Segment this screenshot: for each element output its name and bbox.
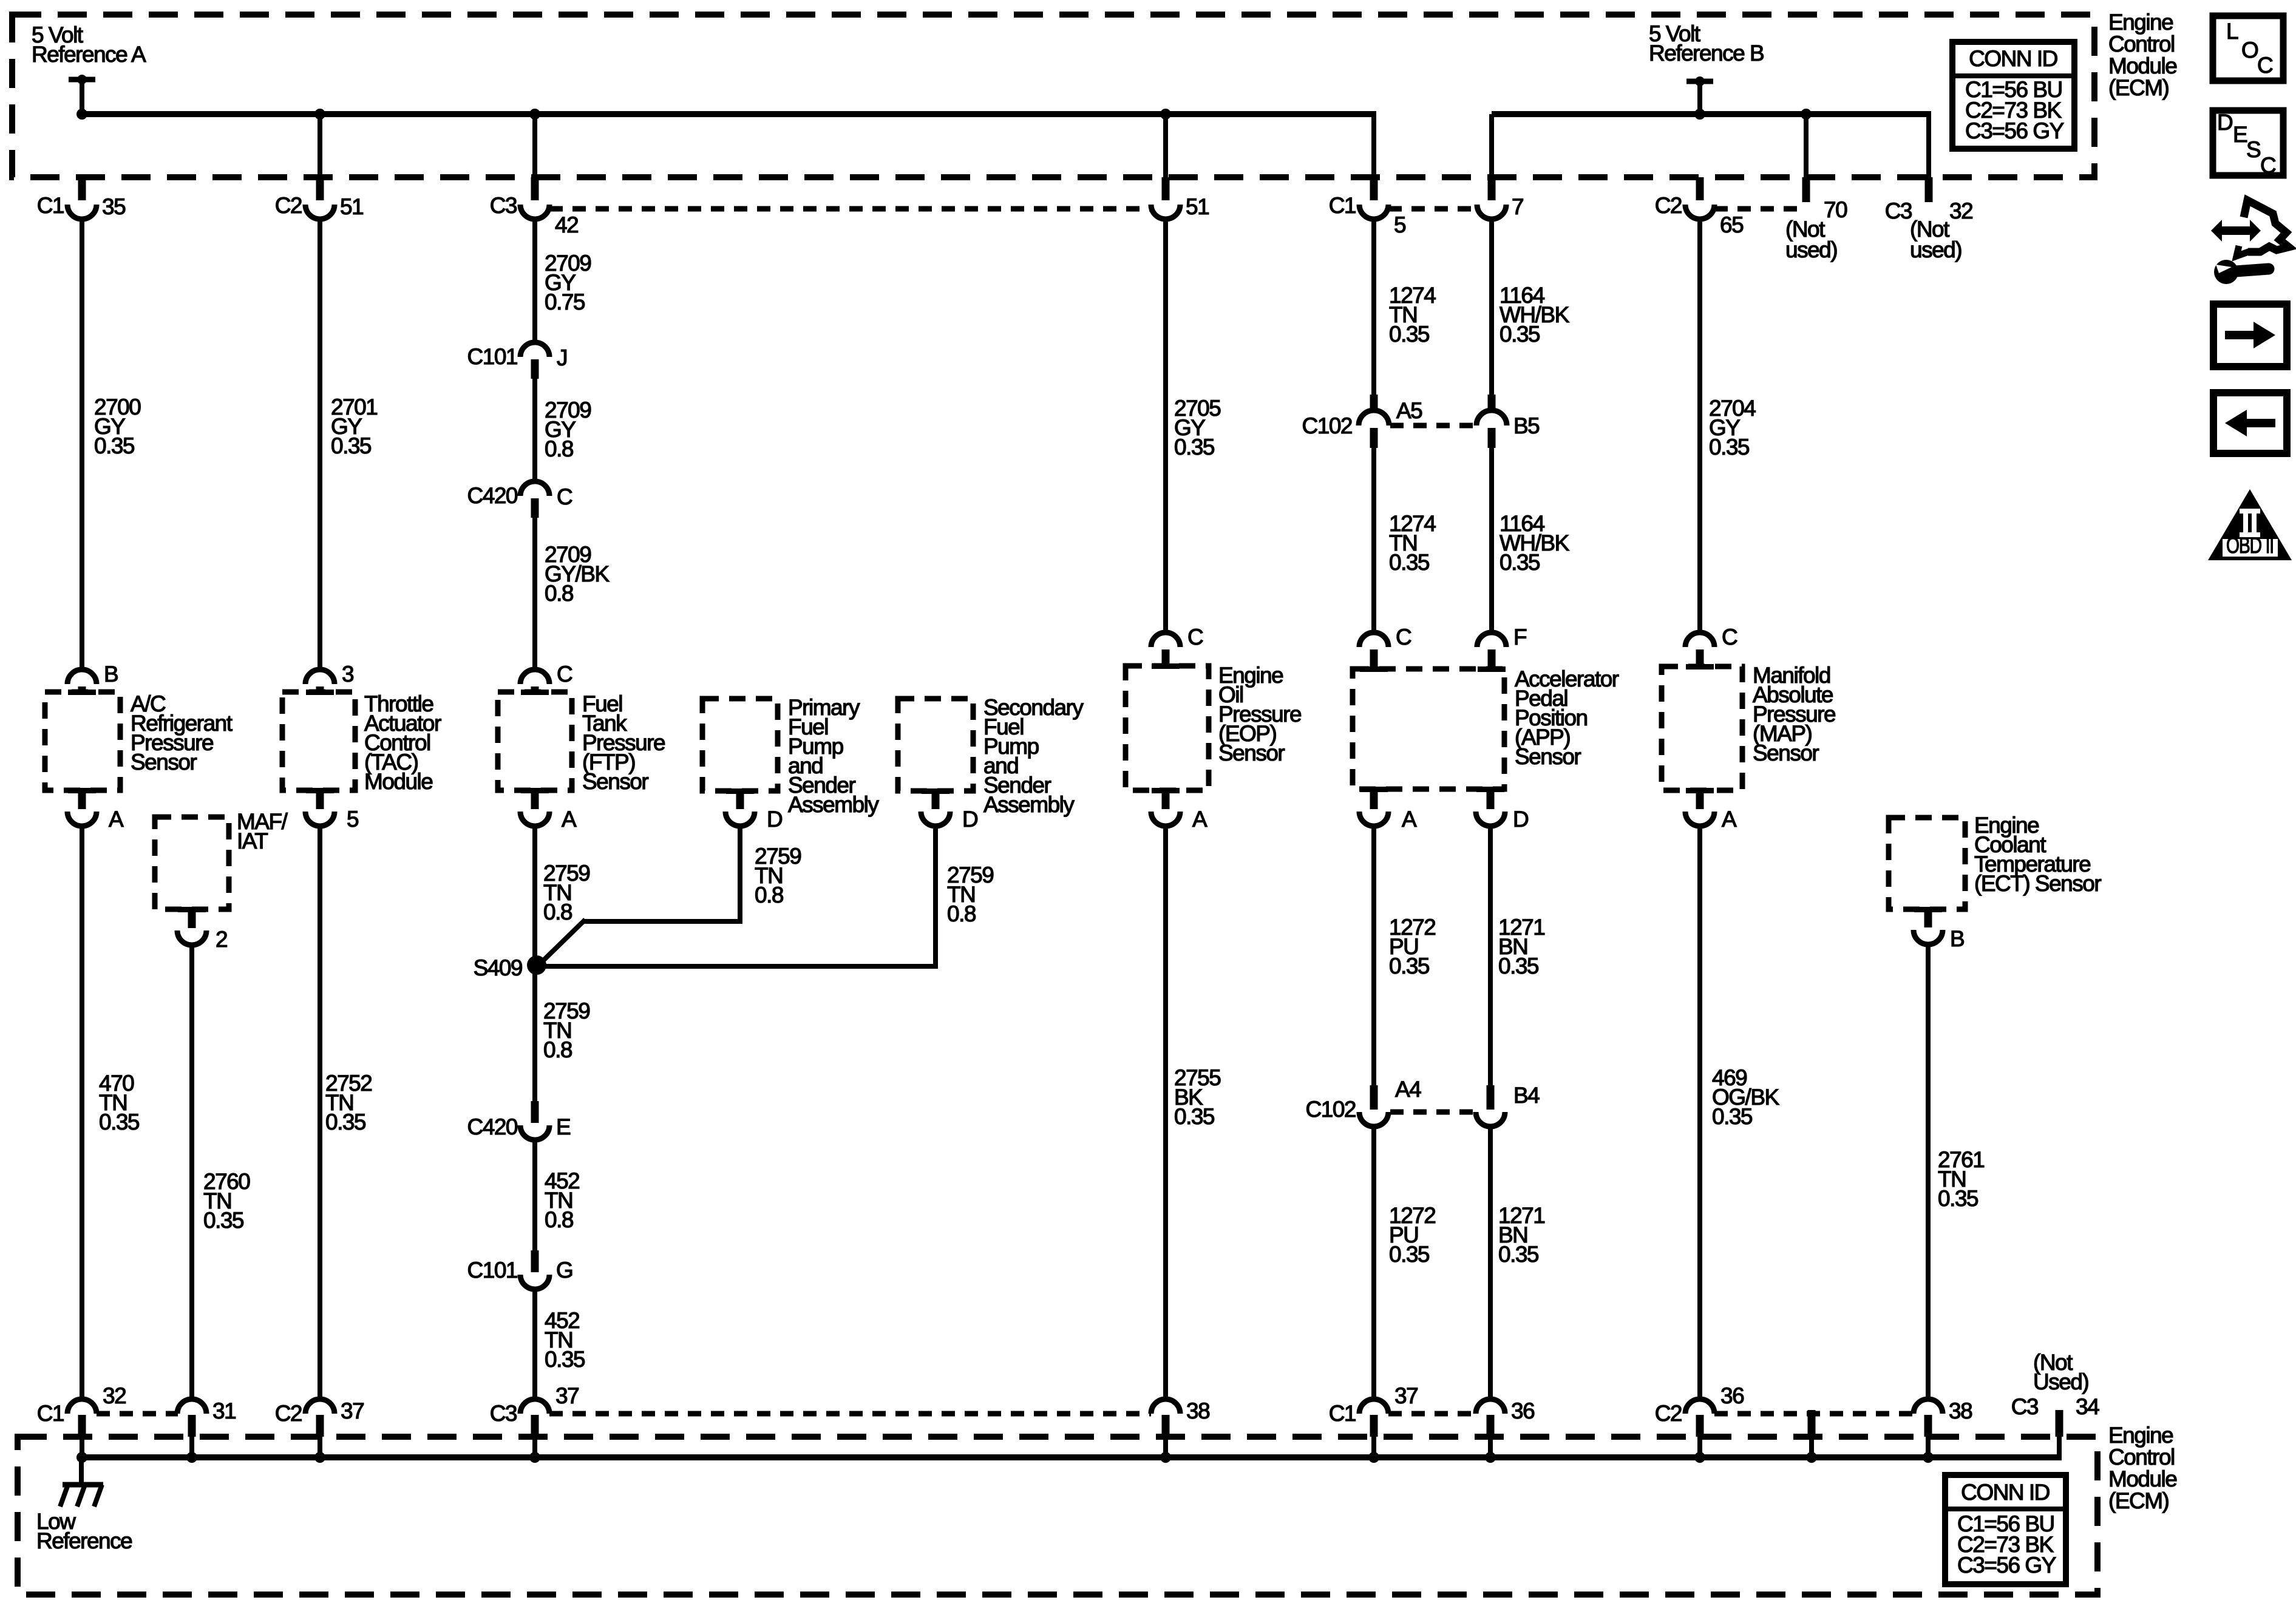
sensor MAF/IAT — [155, 809, 288, 909]
svg-text:C3: C3 — [2011, 1394, 2038, 1419]
connector C101 pin J — [467, 342, 567, 379]
svg-text:C: C — [1722, 625, 1737, 649]
svg-text:C420: C420 — [467, 1114, 518, 1139]
module Throttle Actuator Control (TAC) — [282, 691, 441, 794]
CONN ID table bottom — [1945, 1475, 2066, 1584]
wire 2759 TN 0.8 from primary pump — [537, 826, 801, 967]
svg-text:0.8: 0.8 — [543, 1037, 572, 1062]
wire 2759 TN 0.8 from secondary pump — [537, 826, 993, 966]
svg-text:Sensor: Sensor — [582, 769, 648, 794]
svg-text:C1: C1 — [1329, 1401, 1356, 1426]
pin 70 not used — [1785, 177, 1847, 262]
svg-text:(ECT) Sensor: (ECT) Sensor — [1974, 871, 2101, 896]
wire drop C3-42 — [532, 114, 537, 180]
svg-text:C102: C102 — [1302, 413, 1352, 438]
connector C420 pin C — [467, 481, 572, 518]
svg-text:C1: C1 — [1329, 193, 1356, 218]
svg-text:0.8: 0.8 — [543, 900, 572, 924]
ECM top module box (dashed) — [12, 15, 2094, 177]
connector C1 pin 37 bottom — [1329, 1383, 1418, 1463]
svg-text:used): used) — [1785, 237, 1837, 262]
svg-text:Module: Module — [2108, 1466, 2176, 1491]
connector C102 pin A4 — [1306, 1077, 1422, 1127]
connector C2 pin 36 bottom — [1655, 1383, 1744, 1463]
wire 1164 WH/BK 0.35 upper — [1492, 221, 1570, 397]
icon LOC — [2213, 16, 2283, 81]
svg-text:C2: C2 — [1655, 193, 1682, 218]
svg-text:B: B — [1950, 926, 1964, 951]
connector C102 pin A5 — [1302, 395, 1423, 448]
connector C101 pin G — [467, 1250, 573, 1289]
svg-text:37: 37 — [1394, 1383, 1418, 1408]
svg-text:C: C — [557, 484, 572, 509]
svg-text:0.35: 0.35 — [99, 1110, 140, 1134]
svg-text:CONN ID: CONN ID — [1961, 1480, 2050, 1505]
wire 1274 TN 0.35 lower — [1374, 448, 1436, 632]
svg-text:3: 3 — [342, 662, 353, 686]
svg-text:A: A — [109, 807, 124, 832]
dashed wire C1-37 to 36 — [1388, 1411, 1476, 1417]
svg-text:0.35: 0.35 — [1174, 1104, 1215, 1129]
svg-text:O: O — [2241, 38, 2258, 63]
wire 2760 TN 0.35 — [192, 945, 250, 1399]
svg-text:S409: S409 — [474, 955, 522, 980]
wire 2752 TN 0.35 — [320, 826, 372, 1399]
connector C2 pin 65 — [1655, 177, 1744, 237]
svg-text:Assembly: Assembly — [983, 792, 1075, 817]
svg-text:34: 34 — [2076, 1394, 2099, 1419]
connector C2 pin 51 — [275, 177, 363, 219]
sensor Engine Oil Pressure (EOP) — [1126, 663, 1301, 790]
svg-text:0.35: 0.35 — [1498, 954, 1539, 978]
svg-text:37: 37 — [341, 1398, 364, 1423]
wire 2705 GY 0.35 — [1166, 221, 1221, 632]
wire 2761 TN 0.35 — [1928, 944, 1984, 1399]
pin C3 34 not used — [2011, 1350, 2099, 1460]
dashed wire C3-37 to 38 — [549, 1411, 1151, 1417]
svg-text:C101: C101 — [467, 1258, 517, 1283]
sensor Manifold Absolute Pressure (MAP) — [1662, 663, 1835, 790]
svg-text:Control: Control — [2108, 1445, 2175, 1470]
icon arrow right — [2213, 304, 2287, 367]
connector C420 pin E — [467, 1101, 571, 1140]
sensor APP: connector pin F — [1477, 625, 1527, 672]
dashed wire C102 A5 to B5 — [1390, 423, 1476, 429]
sensor EOP: connector pin C — [1151, 625, 1203, 669]
wire 1274 TN 0.35 upper — [1374, 221, 1436, 397]
dashed wire C1-32 to 31 — [97, 1411, 178, 1417]
svg-text:5: 5 — [1394, 212, 1406, 237]
svg-text:C3: C3 — [490, 1401, 517, 1426]
wire drop 51 — [1163, 114, 1168, 180]
svg-text:38: 38 — [1186, 1398, 1209, 1423]
svg-text:E: E — [556, 1114, 571, 1139]
svg-text:C: C — [557, 662, 572, 686]
svg-text:Used): Used) — [2033, 1369, 2088, 1394]
svg-text:D: D — [1513, 807, 1528, 832]
connector pin D of primary pump — [725, 788, 782, 832]
svg-text:0.8: 0.8 — [545, 581, 573, 606]
wire bottom bus low reference — [81, 1454, 2059, 1460]
connector C1 pin 35 — [37, 177, 126, 219]
svg-text:Reference B: Reference B — [1649, 41, 1764, 66]
sensor FTP: connector pin C — [520, 662, 572, 695]
connector pin 38 bottom EOP — [1151, 1398, 1209, 1463]
svg-text:A4: A4 — [1395, 1077, 1421, 1102]
svg-text:0.8: 0.8 — [947, 901, 976, 926]
svg-text:35: 35 — [102, 194, 126, 219]
wire 1272 PU 0.35 upper — [1374, 826, 1435, 1085]
wire 2700 GY 0.35 — [82, 221, 141, 670]
svg-text:C: C — [2257, 53, 2273, 78]
wire 452 TN 0.8 — [535, 1140, 579, 1250]
svg-text:0.35: 0.35 — [1938, 1186, 1978, 1211]
svg-text:Module: Module — [364, 769, 432, 794]
CONN ID table top — [1952, 42, 2074, 149]
dashed wire C102 A4 to B4 — [1390, 1110, 1474, 1115]
svg-text:36: 36 — [1511, 1398, 1534, 1423]
connector C102 pin B4 — [1476, 1083, 1540, 1127]
wire 2709 GY/BK 0.8 — [535, 518, 610, 670]
svg-text:(ECM): (ECM) — [2108, 1488, 2169, 1513]
svg-text:B4: B4 — [1513, 1083, 1540, 1108]
svg-text:OBD II: OBD II — [2226, 533, 2274, 558]
sensor Accelerator Pedal Position (APP) — [1353, 666, 1619, 789]
svg-text:C3=56 GY: C3=56 GY — [1965, 118, 2064, 143]
dashed wire C2-36 to 38 ECT — [1714, 1411, 1914, 1417]
svg-text:0.35: 0.35 — [1389, 550, 1430, 575]
connector C1 pin 32 bottom — [37, 1383, 126, 1463]
connector pin 38 bottom ECT — [1914, 1398, 1972, 1463]
svg-text:Control: Control — [2108, 32, 2175, 56]
svg-text:A: A — [1722, 807, 1737, 832]
svg-text:A: A — [1192, 807, 1207, 832]
svg-text:L: L — [2226, 19, 2238, 44]
node 5 Volt Reference A — [32, 22, 146, 114]
assembly Secondary Fuel Pump and Sender — [898, 695, 1084, 817]
icon DESC — [2213, 110, 2283, 178]
ECM bottom module box (dashed) — [18, 1437, 2097, 1595]
sensor Engine Coolant Temperature (ECT) — [1889, 813, 2101, 909]
svg-text:Reference: Reference — [36, 1528, 132, 1553]
svg-text:32: 32 — [1949, 198, 1972, 223]
junction dots bus A — [76, 109, 1171, 120]
pin C3 32 not used — [1885, 177, 1972, 262]
svg-text:31: 31 — [212, 1398, 236, 1423]
connector C3 pin 37 bottom — [490, 1383, 579, 1463]
dashed wire C1-5 to 7 — [1388, 206, 1477, 212]
svg-text:(ECM): (ECM) — [2108, 75, 2169, 100]
connector pin A of A/C sensor — [67, 788, 124, 832]
ground low reference — [36, 1453, 132, 1553]
svg-text:C2: C2 — [275, 193, 302, 218]
wire 452 TN 0.35 — [535, 1289, 585, 1399]
connector pin 36 bottom — [1476, 1398, 1534, 1463]
svg-text:Sensor: Sensor — [131, 750, 197, 775]
assembly Primary Fuel Pump and Sender — [702, 695, 879, 817]
svg-text:Engine: Engine — [2108, 10, 2173, 35]
svg-text:C2: C2 — [1655, 1401, 1682, 1426]
svg-text:0.35: 0.35 — [1712, 1104, 1753, 1129]
svg-text:CONN ID: CONN ID — [1969, 46, 2057, 71]
svg-text:51: 51 — [1186, 194, 1209, 219]
connector pin 31 bottom — [177, 1398, 236, 1463]
svg-text:0.35: 0.35 — [1174, 435, 1215, 459]
splice S409 — [474, 955, 546, 980]
sensor A/C Refrigerant Pressure: connector pin B — [67, 662, 118, 695]
node 5 Volt Reference B — [1649, 21, 1764, 114]
wire 2709 GY 0.75 — [535, 221, 591, 342]
svg-text:32: 32 — [103, 1383, 126, 1408]
svg-text:C: C — [1187, 625, 1203, 649]
svg-text:0.35: 0.35 — [203, 1208, 244, 1233]
svg-text:37: 37 — [555, 1383, 579, 1408]
icon arrow left — [2213, 393, 2287, 453]
svg-text:7: 7 — [1512, 194, 1523, 219]
wire top bus B — [1492, 111, 1929, 180]
svg-text:Reference A: Reference A — [32, 42, 146, 67]
connector pin A of MAP — [1685, 788, 1737, 832]
svg-text:Sensor: Sensor — [1515, 744, 1581, 769]
svg-text:D: D — [962, 807, 977, 832]
svg-text:0.35: 0.35 — [1498, 1242, 1539, 1267]
svg-text:C: C — [2260, 153, 2276, 178]
svg-text:D: D — [767, 807, 782, 832]
icon OBD II — [2208, 489, 2292, 560]
wire 469 OG/BK 0.35 — [1700, 826, 1780, 1399]
svg-text:0.8: 0.8 — [545, 436, 573, 461]
svg-text:0.75: 0.75 — [545, 290, 585, 314]
svg-text:0.35: 0.35 — [1709, 435, 1750, 459]
wire 2701 GY 0.35 — [320, 221, 377, 670]
connector pin D of secondary pump — [921, 788, 977, 832]
svg-text:36: 36 — [1720, 1383, 1744, 1408]
sensor MAP: connector pin C — [1685, 625, 1737, 670]
svg-text:Sensor: Sensor — [1218, 741, 1285, 765]
connector pin 7 — [1477, 177, 1523, 219]
connector pin A of FTP — [520, 788, 577, 832]
wire 2759 TN 0.8 below S409 — [535, 965, 589, 1101]
connector pin 51 (EOP feed) — [1151, 177, 1209, 219]
svg-text:5: 5 — [347, 807, 359, 832]
dashed wire C3-42 to 51 — [549, 206, 1151, 212]
connector C102 pin B5 — [1476, 395, 1540, 448]
wire 2759 TN 0.8 from FTP A — [535, 826, 589, 965]
svg-text:38: 38 — [1949, 1398, 1972, 1423]
connector pin A of APP — [1359, 787, 1417, 832]
svg-text:0.35: 0.35 — [545, 1347, 585, 1372]
svg-text:E: E — [2233, 122, 2247, 147]
svg-text:0.35: 0.35 — [94, 433, 135, 458]
svg-text:Assembly: Assembly — [788, 792, 879, 817]
svg-text:0.8: 0.8 — [755, 883, 783, 907]
connector pin 2 of MAF/IAT — [177, 907, 227, 952]
connector pin 5 of TAC — [305, 788, 359, 832]
svg-text:C1: C1 — [37, 1401, 64, 1426]
svg-text:Engine: Engine — [2108, 1423, 2173, 1448]
svg-text:A: A — [1402, 807, 1417, 832]
sensor A/C Refrigerant Pressure Sensor — [45, 691, 233, 790]
svg-text:0.35: 0.35 — [1500, 550, 1540, 575]
wire 1164 WH/BK 0.35 lower — [1492, 448, 1570, 632]
wire drop C2-51 — [318, 114, 322, 180]
svg-text:0.35: 0.35 — [1389, 1242, 1430, 1267]
connector C3 pin 42 — [490, 177, 578, 237]
svg-text:0.35: 0.35 — [1500, 322, 1540, 347]
svg-text:0.35: 0.35 — [325, 1110, 366, 1134]
svg-text:B5: B5 — [1513, 413, 1540, 438]
svg-text:IAT: IAT — [237, 829, 268, 853]
svg-text:42: 42 — [555, 212, 578, 237]
sensor APP: connector pin C — [1359, 625, 1411, 672]
svg-text:0.35: 0.35 — [1389, 322, 1430, 347]
wire 2709 GY 0.8 — [535, 379, 591, 481]
svg-text:S: S — [2246, 137, 2260, 162]
dashed wire C2-65 to 70 — [1714, 206, 1802, 212]
svg-text:70: 70 — [1824, 197, 1847, 222]
svg-text:C3: C3 — [1885, 198, 1912, 223]
svg-text:2: 2 — [216, 927, 227, 952]
wire 1271 BN 0.35 upper — [1490, 826, 1544, 1085]
svg-text:0.35: 0.35 — [1389, 954, 1430, 978]
svg-text:F: F — [1513, 625, 1527, 649]
ECM top label — [2108, 10, 2176, 100]
svg-text:C: C — [1396, 625, 1411, 649]
connector pin B of ECT — [1914, 907, 1964, 951]
svg-text:0.8: 0.8 — [545, 1207, 573, 1232]
svg-text:C1: C1 — [37, 193, 64, 218]
svg-text:65: 65 — [1720, 212, 1744, 237]
wire 2755 BK 0.35 — [1166, 826, 1221, 1399]
svg-text:C3=56 GY: C3=56 GY — [1957, 1553, 2056, 1578]
wire 1272 PU 0.35 lower — [1374, 1127, 1435, 1399]
svg-text:J: J — [557, 345, 567, 370]
svg-text:C3: C3 — [490, 193, 517, 218]
svg-text:Module: Module — [2108, 53, 2176, 78]
junction dots bus B — [1694, 109, 1812, 120]
wire 470 TN 0.35 — [82, 826, 140, 1399]
wire 1271 BN 0.35 lower — [1490, 1127, 1544, 1399]
svg-text:C102: C102 — [1306, 1097, 1356, 1122]
svg-text:C2: C2 — [275, 1401, 302, 1426]
svg-text:C101: C101 — [467, 344, 517, 369]
svg-text:D: D — [2217, 110, 2232, 135]
svg-text:used): used) — [1910, 237, 1961, 262]
wire 2704 GY 0.35 — [1700, 221, 1756, 632]
connector pin D of APP — [1476, 787, 1528, 832]
connector C2 pin 37 bottom — [275, 1398, 364, 1463]
svg-text:C420: C420 — [467, 483, 518, 508]
sensor Fuel Tank Pressure (FTP) — [498, 691, 665, 794]
connector pin A of EOP — [1151, 788, 1207, 832]
svg-text:G: G — [556, 1258, 572, 1283]
pin stub to bus at 2984 — [1806, 1410, 1817, 1463]
svg-text:51: 51 — [340, 194, 363, 219]
ECM bottom label — [2108, 1423, 2176, 1513]
wire top bus A — [82, 111, 1374, 180]
connector C1 pin 5 — [1329, 177, 1406, 237]
svg-text:Sensor: Sensor — [1753, 741, 1819, 765]
module TAC: connector pin 3 — [305, 662, 353, 695]
svg-text:A5: A5 — [1396, 398, 1422, 423]
icon service wrench with arrows — [2211, 200, 2289, 284]
wire drop pin 70 — [1804, 114, 1809, 180]
svg-text:0.35: 0.35 — [331, 433, 372, 458]
svg-text:B: B — [104, 662, 118, 686]
svg-text:A: A — [562, 807, 577, 832]
